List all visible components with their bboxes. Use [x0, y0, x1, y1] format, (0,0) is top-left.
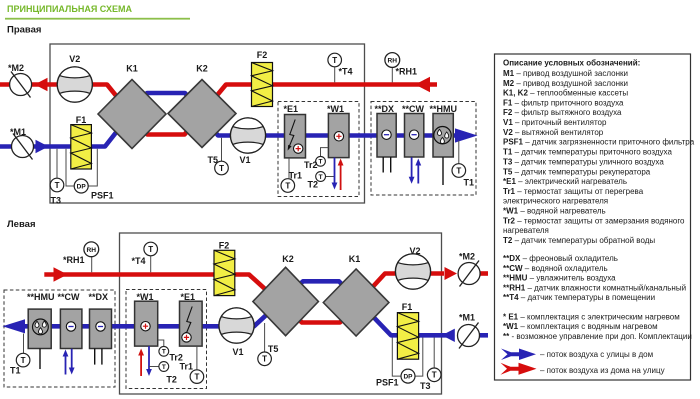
damper actuator M1	[10, 127, 34, 160]
svg-text:*T4: *T4	[339, 67, 353, 77]
svg-text:K2: K2	[282, 254, 294, 264]
fan V2 (exhaust)	[57, 54, 92, 102]
svg-text:T3: T3	[51, 196, 62, 206]
CW water pipes (scheme 2)	[63, 349, 75, 375]
svg-text:*M1: *M1	[10, 127, 26, 137]
svg-text:Правая: Правая	[7, 25, 41, 36]
svg-text:PSF1 – датчик загрязненности п: PSF1 – датчик загрязненности приточного …	[503, 138, 695, 147]
svg-text:*RH1: *RH1	[63, 255, 85, 265]
wire: blue supply pipe (scheme 2)	[20, 281, 448, 335]
section label: Левая	[7, 219, 36, 230]
svg-text:*W1: *W1	[137, 292, 154, 302]
svg-text:DP: DP	[77, 184, 87, 191]
svg-text:PSF1: PSF1	[376, 378, 399, 388]
svg-text:**HMU: **HMU	[430, 104, 458, 114]
svg-text:T1: T1	[464, 178, 475, 188]
svg-text:T2: T2	[166, 375, 177, 385]
freon cooler DX (scheme 2)	[89, 292, 112, 349]
svg-text:Tr2: Tr2	[304, 160, 318, 170]
thermostat Tr2 (scheme 2)	[158, 340, 183, 363]
svg-text:**CW – водяной охладитель: **CW – водяной охладитель	[503, 264, 608, 273]
water pipe arrows below W1 (scheme 2)	[138, 346, 152, 376]
wire: blue supply pipe (scheme 1)	[0, 93, 456, 147]
sensor T1 (scheme 2)	[10, 334, 30, 376]
CW water pipes	[409, 157, 422, 184]
sensor PSF1 (filter pressure, DP)	[66, 149, 114, 201]
section label: Правая	[7, 25, 41, 36]
svg-text:**T4 – датчик температуры в по: **T4 – датчик температуры в помещении	[503, 293, 655, 302]
svg-text:**CW: **CW	[402, 104, 425, 114]
fan V1 (scheme 2)	[219, 308, 254, 357]
water cooler CW	[402, 104, 425, 157]
arrow: red exhaust to street (right)	[445, 267, 458, 280]
red stub through damper M2 (scheme 2)	[478, 271, 488, 276]
sensor T3 (scheme 2)	[420, 338, 441, 392]
filter F2 (extract)	[252, 50, 273, 107]
sensor T2 (scheme 2)	[149, 362, 177, 385]
filter F1 (supply)	[71, 115, 92, 169]
svg-text:**HMU – увлажнитель воздуха: **HMU – увлажнитель воздуха	[503, 274, 616, 283]
sensor T1 (supply temp)	[452, 141, 474, 188]
svg-text:V1 – приточный вентилятор: V1 – приточный вентилятор	[503, 118, 607, 127]
humidifier HMU (scheme 2)	[27, 292, 55, 349]
svg-text:DP: DP	[403, 374, 413, 381]
svg-text:T3 – датчик температуры улично: T3 – датчик температуры уличного воздуха	[503, 157, 664, 166]
HMU feed pipe (scheme 2)	[39, 349, 41, 370]
svg-text:K1, K2 – теплообменные кассеты: K1, K2 – теплообменные кассеты	[503, 89, 628, 98]
svg-text:– поток воздуха с улицы в дом: – поток воздуха с улицы в дом	[540, 350, 653, 359]
svg-text:T1 – датчик температуры приточ: T1 – датчик температуры приточного возду…	[503, 148, 672, 157]
filter F2 (scheme 2)	[214, 241, 235, 296]
svg-text:– поток воздуха из дома на ул: – поток воздуха из дома на улицу	[540, 366, 665, 375]
svg-text:V2: V2	[409, 246, 420, 256]
sensor T4 (room temp)	[328, 53, 353, 82]
svg-text:PSF1: PSF1	[91, 191, 114, 201]
dashed option box: heaters E1/W1	[278, 102, 359, 197]
svg-text:F2: F2	[257, 50, 268, 60]
thermostat Tr1 (scheme 2)	[180, 346, 204, 383]
svg-text:*E1: *E1	[181, 292, 196, 302]
dashed option box: coolers/humidifier	[371, 102, 476, 196]
electric heater E1 (scheme 2)	[180, 292, 203, 346]
legend arrow: extract flow (red)	[501, 363, 665, 375]
unit enclosure box 1	[50, 44, 365, 203]
blue stub through damper M1 (scheme 2)	[478, 333, 488, 338]
HMU feed pipe	[442, 157, 444, 185]
svg-text:T1: T1	[10, 366, 21, 376]
legend text	[503, 59, 695, 342]
svg-text:Tr1: Tr1	[180, 362, 194, 372]
heat-exchange cassette K2 (scheme 2)	[253, 254, 319, 336]
svg-text:T3: T3	[420, 381, 431, 391]
dashed option box: heaters (scheme 2)	[126, 290, 207, 389]
svg-text:T5: T5	[208, 155, 219, 165]
svg-text:K1: K1	[126, 64, 138, 74]
heat-exchange cassette K1	[98, 64, 166, 149]
svg-text:F1 – фильтр приточного воздуха: F1 – фильтр приточного воздуха	[503, 98, 624, 107]
svg-text:T2: T2	[308, 180, 319, 190]
water heater W1 (scheme 2)	[135, 292, 158, 346]
arrow: blue from street into unit (right)	[442, 329, 455, 342]
svg-text:**DX: **DX	[89, 292, 109, 302]
svg-text:**HMU: **HMU	[27, 292, 55, 302]
svg-text:F1: F1	[402, 302, 413, 312]
svg-text:*T4: *T4	[132, 256, 146, 266]
freon cooler DX	[375, 104, 397, 157]
svg-text:**DX – фреоновый охладитель: **DX – фреоновый охладитель	[503, 254, 618, 263]
svg-text:*M1: *M1	[459, 313, 475, 323]
svg-text:Tr2 – термостат защиты от заме: Tr2 – термостат защиты от замерзания вод…	[503, 216, 685, 225]
arrow: blue supply into house (big, left)	[3, 319, 26, 333]
svg-text:V1: V1	[239, 155, 250, 165]
svg-text:M1 – привод воздушной заслонки: M1 – привод воздушной заслонки	[503, 69, 628, 78]
fan V2 (scheme 2)	[395, 246, 430, 289]
heat-exchange cassette K2	[168, 64, 236, 148]
sensor RH1 (scheme 2)	[63, 242, 99, 272]
sensor T2 (return water)	[308, 172, 335, 190]
water cooler CW (scheme 2)	[58, 292, 82, 349]
svg-text:** - возможное управление при: ** - возможное управление при доп. Компл…	[503, 332, 692, 341]
sensor PSF1 (scheme 2)	[376, 338, 423, 388]
arrow: red exhaust to street (left)	[35, 78, 48, 91]
svg-text:*W1 – водяной нагреватель: *W1 – водяной нагреватель	[503, 207, 606, 216]
damper actuator M2	[8, 63, 32, 98]
svg-text:*W1: *W1	[327, 104, 344, 114]
svg-text:*E1: *E1	[284, 104, 299, 114]
svg-text:Левая: Левая	[7, 219, 36, 230]
svg-text:RH: RH	[87, 247, 97, 254]
svg-text:F1: F1	[76, 115, 87, 125]
damper actuator M1 (scheme 2)	[458, 313, 480, 349]
wire: red extract pipe (scheme 2)	[44, 274, 444, 323]
svg-text:электрического нагревателя: электрического нагревателя	[503, 197, 608, 206]
arrow: blue from street into unit (left)	[36, 140, 49, 153]
sensor T3 (outdoor temp)	[50, 149, 64, 206]
svg-text:*E1 – электрический нагревател: *E1 – электрический нагреватель	[503, 177, 627, 186]
svg-text:ПРИНЦИПИАЛЬНАЯ СХЕМА: ПРИНЦИПИАЛЬНАЯ СХЕМА	[7, 4, 132, 14]
svg-text:F2: F2	[219, 241, 230, 251]
svg-text:Описание условных обозначений:: Описание условных обозначений:	[503, 59, 640, 68]
water heater W1	[327, 104, 349, 158]
thermostat Tr1	[281, 158, 302, 192]
damper actuator M2 (scheme 2)	[458, 252, 480, 287]
svg-text:T2 – датчик температуры обрат: T2 – датчик температуры обратной воды	[503, 236, 655, 245]
svg-text:V2 – вытяжной вентилятор: V2 – вытяжной вентилятор	[503, 128, 604, 137]
svg-text:нагревателя: нагревателя	[503, 226, 549, 235]
dashed option box: coolers/humidifier (scheme 2)	[4, 290, 115, 387]
svg-text:M2 – привод воздушной заслонки: M2 – привод воздушной заслонки	[503, 79, 628, 88]
svg-text:V2: V2	[69, 54, 80, 64]
svg-text:Tr1 – термостат защиты от пере: Tr1 – термостат защиты от перегрева	[503, 187, 644, 196]
arrow: blue supply into house (big, right)	[455, 128, 478, 142]
DX refrigerant pipes	[383, 157, 391, 173]
svg-text:*W1 – комплектация с водяным н: *W1 – комплектация с водяным нагревом	[503, 322, 658, 331]
svg-text:F2 – фильтр вытяжного воздуха: F2 – фильтр вытяжного воздуха	[503, 108, 622, 117]
svg-text:* E1 – комплектация с электрич: * E1 – комплектация с электрическим нагр…	[503, 312, 680, 321]
DX refrigerant pipes (scheme 2)	[95, 349, 102, 365]
sensor RH1 (humidity)	[385, 53, 417, 83]
filter F1 (scheme 2)	[397, 302, 418, 359]
svg-text:**CW: **CW	[58, 292, 81, 302]
svg-text:T5 – датчик температуры рекупе: T5 – датчик температуры рекуператора	[503, 167, 651, 176]
humidifier HMU	[430, 104, 458, 157]
unit enclosure box 2	[120, 233, 442, 394]
thermostat Tr2	[304, 148, 328, 170]
wire: red extract pipe (scheme 1)	[0, 85, 437, 135]
sensor T5 (recuperator temp)	[208, 138, 229, 175]
legend box	[495, 54, 691, 380]
legend arrow: supply flow (blue)	[501, 349, 653, 361]
svg-text:RH: RH	[388, 58, 398, 65]
arrow: red from house (top right)	[415, 77, 430, 92]
svg-text:T5: T5	[268, 344, 279, 354]
svg-text:*M2: *M2	[459, 252, 475, 262]
svg-text:*RH1: *RH1	[396, 67, 418, 77]
svg-text:Tr1: Tr1	[289, 171, 303, 181]
svg-text:K1: K1	[349, 254, 361, 264]
sensor T5 (scheme 2)	[258, 323, 279, 366]
svg-text:*M2: *M2	[8, 63, 24, 73]
fan V1 (supply)	[230, 118, 265, 165]
svg-text:**DX: **DX	[375, 104, 395, 114]
green underline	[5, 18, 190, 20]
svg-text:K2: K2	[196, 64, 208, 74]
electric heater E1	[284, 104, 306, 158]
sensor T4 (scheme 2)	[132, 242, 158, 272]
heat-exchange cassette K1 (scheme 2)	[323, 254, 389, 336]
page title	[7, 4, 132, 14]
arrow: red from house (big, left)	[54, 267, 68, 281]
water pipe arrows below W1	[332, 158, 344, 190]
svg-text:**RH1 – датчик влажности комна: **RH1 – датчик влажности комнатный/канал…	[503, 283, 686, 292]
svg-text:V1: V1	[232, 347, 243, 357]
